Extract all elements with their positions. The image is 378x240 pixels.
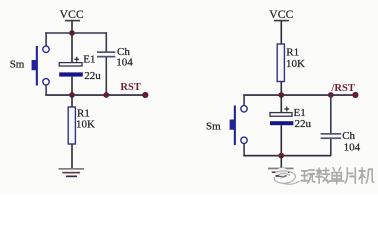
svg-text:RST: RST — [120, 82, 140, 93]
svg-text:104: 104 — [344, 142, 361, 154]
ground (left) — [59, 168, 85, 177]
svg-text:Sm: Sm — [206, 121, 221, 133]
watermark text 玩转单片机 (hand-drawn strokes) — [301, 168, 373, 184]
node: bottom rail junction — [278, 153, 284, 159]
resistor R1 (right, 10K) — [277, 44, 305, 95]
svg-text:10K: 10K — [286, 58, 305, 70]
svg-text:22u: 22u — [84, 70, 101, 82]
wire: switch bottom to bottom rail (right) — [243, 143, 245, 156]
svg-text:104: 104 — [116, 57, 133, 69]
resistor R1 (left, 10K) — [68, 95, 95, 169]
转 — [316, 168, 322, 183]
wire: right bottom rail — [243, 155, 331, 157]
svg-text:Sm: Sm — [10, 58, 25, 70]
单 — [333, 168, 340, 171]
wire: switch bottom to mid rail — [45, 85, 47, 96]
svg-text:VCC: VCC — [60, 9, 84, 21]
node: Ch top junction — [328, 92, 334, 98]
node: R1 bottom junction — [278, 92, 284, 98]
switch Sm (left) — [10, 46, 50, 86]
wire: left top rail — [45, 32, 107, 34]
wire: junction to ground (right) — [281, 156, 283, 168]
机 — [359, 168, 365, 183]
svg-text:Ch: Ch — [342, 130, 355, 142]
wire: rail to switch top (right) — [243, 94, 245, 106]
片 — [345, 168, 355, 183]
capacitor Ch (left, 104) — [97, 32, 133, 95]
node: Ch bottom junction — [103, 92, 109, 98]
watermark logo — [274, 168, 299, 184]
wire: right mid rail (/RST net) — [243, 94, 355, 96]
capacitor Ch (right, 104) — [321, 95, 361, 156]
switch Sm (right) — [206, 106, 247, 146]
node: left VCC junction — [69, 30, 75, 36]
power VCC (left) — [60, 9, 84, 33]
玩 — [301, 171, 308, 181]
svg-text:VCC: VCC — [269, 9, 293, 21]
ground (right) — [268, 168, 294, 177]
node: E1 bottom junction — [69, 92, 75, 98]
svg-text:22u: 22u — [295, 118, 312, 130]
svg-text:E1: E1 — [83, 53, 95, 65]
power VCC (right) — [269, 9, 293, 44]
wire: left mid rail (RST net) — [45, 94, 146, 96]
svg-text:/RST: /RST — [331, 83, 355, 94]
svg-text:R1: R1 — [286, 47, 299, 59]
svg-text:10K: 10K — [76, 119, 95, 131]
wire: left rail to switch top — [45, 32, 47, 46]
capacitor E1 (right, electrolytic 22u) — [270, 95, 312, 156]
capacitor E1 (left, electrolytic 22u) — [59, 33, 101, 95]
